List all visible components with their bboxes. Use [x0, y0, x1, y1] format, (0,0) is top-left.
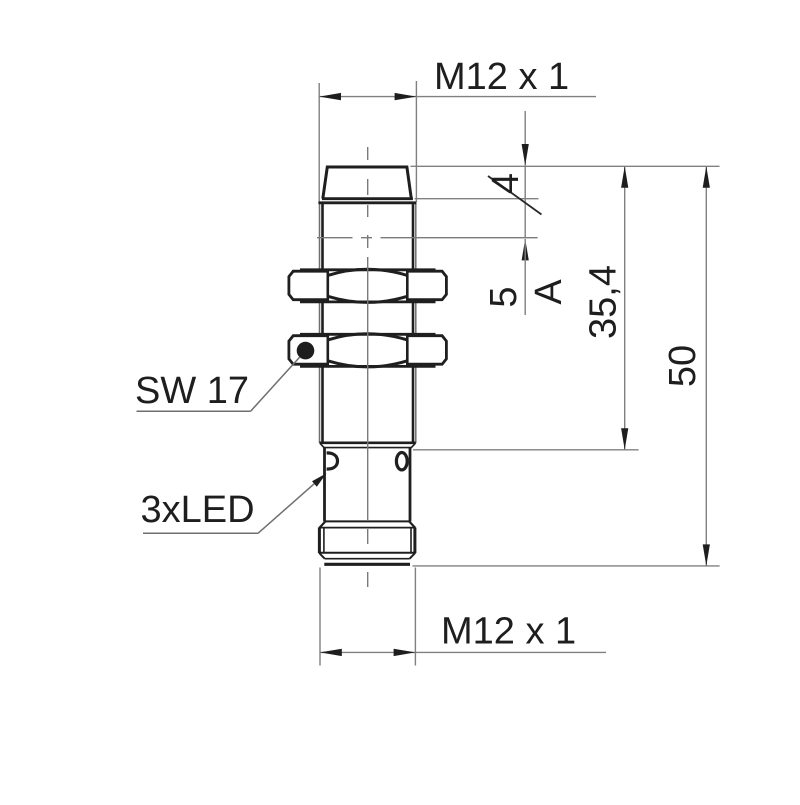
thread crest thin line left: [319, 203, 321, 443]
dimension line 4/5 middle segment: [524, 166, 526, 238]
connector outer left edge: [318, 528, 321, 553]
LED window left: [327, 453, 338, 469]
oblique slash terminator: [488, 176, 542, 215]
connector top shoulder line: [326, 520, 410, 522]
thread end chamfer left: [320, 443, 324, 448]
hex nut 2 bottom face edge: [300, 365, 436, 368]
arrow left top dimension: [319, 93, 341, 100]
extension line at housing step going right: [413, 449, 639, 451]
housing step line: [323, 447, 411, 449]
sensing cap trapezoid: [323, 167, 412, 199]
svg-text:M12 x 1: M12 x 1: [434, 56, 569, 98]
svg-text:3xLED: 3xLED: [141, 489, 255, 531]
connector chamfer bottom-right: [410, 553, 415, 559]
thread relief line above bottom face: [325, 558, 410, 560]
hex nut 2 middle chamfer bottom arc: [328, 361, 408, 367]
svg-text:A: A: [528, 279, 570, 305]
connector bottom line: [319, 552, 416, 554]
hex nut 1 bottom face edge: [300, 300, 436, 303]
connector outer right edge: [413, 528, 416, 553]
thread root thick line right: [412, 204, 415, 444]
thread crest thin line right: [415, 203, 417, 443]
extension line at cap top going right: [411, 165, 720, 167]
hex nut 1 middle chamfer top arc: [328, 269, 408, 275]
dimension line 50: [705, 166, 707, 566]
LED window right: [396, 453, 407, 470]
dimension line bottom M12 x 1: [320, 651, 606, 653]
horizontal centerline at reference A: [317, 237, 538, 239]
arrow down at cap top: [522, 144, 529, 166]
svg-text:50: 50: [662, 345, 704, 387]
connector inner line right: [410, 529, 412, 553]
hex nut 1 face line right: [406, 271, 409, 302]
connector top line: [319, 527, 416, 529]
svg-text:5: 5: [483, 286, 525, 307]
svg-text:4: 4: [485, 173, 527, 194]
extension line right of bottom M12 dimension: [414, 568, 416, 666]
arrow up 35,4: [621, 166, 628, 188]
hex nut 1 side faces outline: [289, 271, 447, 300]
leader arrowhead 3xLED: [312, 473, 327, 487]
arrow right top dimension: [395, 93, 417, 100]
housing right edge: [409, 448, 412, 522]
connector chamfer top-right: [409, 521, 415, 528]
arrow left bottom dimension: [320, 649, 342, 656]
extension line left of bottom M12 dimension: [319, 568, 321, 666]
body top edge: [318, 201, 416, 204]
hex nut 2 white body: [290, 336, 446, 366]
leader diagonal SW 17 to dot: [251, 357, 300, 411]
dimension line 4/5 upper tail: [524, 111, 526, 166]
connector inner line left: [323, 529, 325, 553]
arrow down 35,4: [621, 428, 628, 450]
bottom face: [324, 563, 410, 566]
connector chamfer bottom-left: [319, 553, 324, 559]
hex nut 1 face line left: [326, 271, 329, 302]
extension line at cap bottom going right: [415, 198, 539, 200]
arrow right bottom dimension: [394, 649, 416, 656]
arrow up 50: [703, 166, 710, 188]
hex nut 2 middle chamfer top arc: [328, 334, 408, 340]
hex nut 1 middle chamfer bottom arc: [328, 296, 408, 302]
connector chamfer top-left: [320, 521, 326, 528]
housing left edge: [323, 448, 326, 522]
dimension line 35,4: [624, 166, 626, 450]
svg-text:SW 17: SW 17: [135, 370, 249, 412]
hex nut 1 top face edge: [300, 268, 436, 271]
hex nut 2 face line right: [406, 335, 409, 366]
thread root thick line left: [321, 204, 324, 444]
svg-text:35,4: 35,4: [583, 265, 625, 339]
wrench flat dot on nut 2: [297, 342, 315, 360]
leader underline SW 17: [137, 410, 251, 412]
vertical centerline: [367, 147, 369, 587]
thread end chamfer right: [411, 443, 415, 448]
extension line left of top M12 dimension: [318, 83, 320, 202]
cap bottom edge: [322, 197, 413, 200]
leader underline 3xLED: [143, 532, 258, 534]
extension line at bottom face going right: [413, 565, 720, 567]
svg-text:M12 x 1: M12 x 1: [441, 611, 576, 653]
dimension line 4/5 lower tail: [524, 239, 526, 315]
extension line right of top M12 dimension: [415, 81, 417, 202]
dimension line top M12 x 1: [319, 96, 596, 98]
hex nut 1 white body: [290, 271, 446, 301]
arrow down 50: [703, 544, 710, 566]
arrow up at reference A: [522, 239, 529, 261]
thread end line: [320, 441, 416, 444]
leader diagonal 3xLED: [258, 482, 316, 533]
hex nut 2 side faces outline: [289, 336, 447, 365]
hex nut 2 face line left: [326, 335, 329, 366]
hex nut 2 top face edge: [300, 333, 436, 336]
